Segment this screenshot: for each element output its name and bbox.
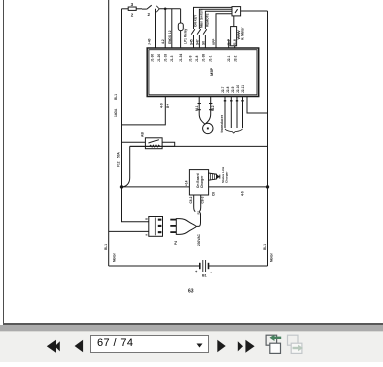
motor pin tick 2 [209,103,212,105]
svg-text:2: 2 [148,12,151,17]
connector hook wire 1 [224,97,226,129]
svg-text:REMOTE: REMOTE [206,13,210,27]
svg-text:H. Meter: H. Meter [241,27,245,40]
svg-text:4-2: 4-2 [161,39,165,44]
svg-text:J1-9: J1-9 [189,55,193,62]
svg-text:M5P: M5P [209,67,214,76]
node bus left junction [120,185,123,188]
wire VPP [216,14,232,48]
charger lead C8-2 [194,195,196,212]
svg-text:LP1 Relay: LP1 Relay [184,29,188,44]
wire top feed [122,8,129,10]
svg-text:J1-30: J1-30 [151,54,155,62]
svg-text:14GA: 14GA [114,108,118,117]
relay LP1 lead lower [180,31,182,48]
node junction top [164,8,167,11]
motor M1 [203,123,213,133]
fuse F1 [128,7,136,10]
svg-text:ENGS 12: ENGS 12 [168,30,172,44]
svg-text:J1-38: J1-38 [202,54,206,62]
plug P4 cable [196,212,200,226]
keyswitch module S [232,7,241,16]
svg-text:transducer: transducer [220,114,224,132]
wire bus 14GA [122,186,268,188]
svg-text:Motor: Motor [270,252,274,262]
svg-text:J1-7: J1-7 [227,39,231,46]
svg-text:+: + [195,269,198,274]
breaker AB coil [150,145,160,147]
wire stub J pin c [171,9,173,48]
svg-text:B: B [144,217,148,220]
wire bottom pin feed [122,97,166,125]
svg-text:A: A [144,233,148,236]
svg-text:J-40: J-40 [148,38,152,45]
svg-text:2: 2 [131,13,134,18]
svg-text:Charger: Charger [200,175,204,188]
charger C8 box [189,170,208,195]
page left edge [3,0,4,324]
svg-text:J2-11: J2-11 [241,85,245,93]
svg-text:C8: C8 [212,192,216,196]
wire stub J pin b [164,9,166,48]
wire corner down to bus junction [122,146,130,187]
svg-text:J2-7: J2-7 [221,86,225,93]
plug P4 body [176,219,196,235]
motor pin tick 1 [198,103,201,105]
svg-text:63: 63 [188,289,194,295]
wire bus to rail [130,145,268,147]
svg-text:J1-34: J1-34 [179,54,183,62]
node bus right junction [266,185,269,188]
svg-text:J1-8: J1-8 [195,55,199,62]
svg-text:J1-3: J1-3 [170,55,174,62]
switch S47 branch [199,9,232,29]
svg-text:S6: S6 [202,41,206,45]
wire fuse to switch [136,8,142,10]
svg-text:J2-1: J2-1 [227,55,231,62]
svg-text:C8-3: C8-3 [201,196,205,203]
motor lead 1 [199,97,205,125]
relay K2 body [231,27,237,46]
svg-text:M-1: M-1 [195,105,199,111]
relay K2 coil [238,31,240,40]
relay LP1 body [178,23,183,31]
svg-text:S47: S47 [196,39,200,45]
wire AB feed [122,141,146,143]
svg-text:VPP: VPP [212,38,216,45]
controller M5P inner box [149,50,257,95]
connector chevron [156,6,159,12]
connector pin marks [224,100,226,102]
connector hook wire 3 [236,97,238,129]
breaker AB box [145,138,162,149]
wire socket feed lower [109,230,149,232]
svg-text:Motor: Motor [113,252,117,262]
motor lead 2 [205,97,211,125]
wire pin to rail [247,97,268,114]
page bottom edge [3,323,383,325]
svg-text:P1: P1 [197,210,201,214]
svg-text:S45: S45 [190,39,194,45]
connector hook wire 4 [242,97,244,129]
relay K2 pin leads [228,39,230,48]
svg-text:C8-2: C8-2 [189,196,193,203]
wire left rail 2 [122,9,149,222]
svg-text:J1-18: J1-18 [164,54,168,62]
svg-text:J1-6: J1-6 [233,39,237,46]
connector hook wire 2 [230,97,232,129]
svg-text:J2-2: J2-2 [234,55,238,62]
wire battery bottom right [209,265,268,267]
switch S45 branch [194,7,233,29]
wire battery bottom left [109,265,200,267]
controller M5P outer box [147,48,259,97]
socket S1 box [149,217,163,237]
wire switch to corner [159,8,180,10]
svg-text:P4: P4 [174,241,178,245]
svg-text:AB: AB [141,132,145,137]
svg-text:B+: B+ [166,104,170,108]
svg-text:BL1: BL1 [263,244,267,250]
relay K2 lead [233,16,235,27]
svg-text:+14: +14 [185,180,189,186]
svg-text:BL1: BL1 [104,244,108,250]
switch S6 branch [205,11,232,29]
switch S2 [142,8,147,10]
svg-text:4-9: 4-9 [160,103,164,108]
plug P4 prongs [170,219,176,221]
navigation toolbar [0,331,383,362]
svg-text:J2-9: J2-9 [231,86,235,93]
svg-text:230VAC: 230VAC [197,233,201,246]
svg-text:B1: B1 [202,274,207,278]
svg-text:Main Switch: Main Switch [200,10,204,28]
svg-text:BL1: BL1 [114,94,118,100]
svg-text:F12: F12 [117,161,121,167]
wire stub J pin a [155,9,157,48]
wire AB to rail [130,142,175,146]
svg-text:Charger: Charger [225,171,229,183]
svg-text:M-2: M-2 [211,105,215,111]
svg-text:J1-1: J1-1 [209,55,213,62]
wire module output [241,10,268,12]
breaker AB blade [148,140,159,143]
svg-text:J2-10: J2-10 [236,85,240,93]
viewer background band [0,325,383,331]
svg-text:4-6: 4-6 [241,191,245,196]
wire right rail [267,11,269,266]
charger status nozzle [209,173,217,180]
connector group brace [225,129,243,133]
svg-text:J2-8: J2-8 [226,86,230,93]
charger lead C8-3 [199,195,201,212]
svg-text:J1-20: J1-20 [157,54,161,62]
svg-text:-: - [211,269,213,274]
battery B1 [199,263,201,269]
svg-text:3: 3 [131,2,134,7]
wire left rail BL1 [108,0,110,266]
svg-text:50A: 50A [117,151,121,158]
relay LP1 lead [180,9,182,23]
svg-text:ON KEY: ON KEY [194,14,198,27]
